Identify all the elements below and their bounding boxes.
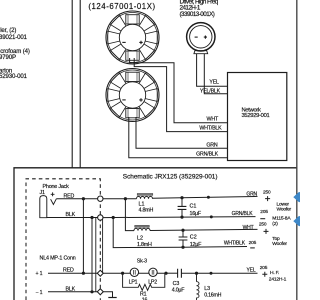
- lamp LP2: [148, 268, 157, 285]
- wire RED bus vertical: [82, 199, 84, 274]
- capacitor C3 4.0uF (series): [166, 269, 185, 294]
- wire aux vertical: [95, 218, 97, 292]
- wire GRN (woofer2 + to network): [136, 117, 228, 148]
- page border right: [296, 0, 298, 300]
- svg-text:Sk-3: Sk-3: [137, 258, 147, 264]
- svg-text:GRN: GRN: [206, 142, 218, 148]
- inductor L1 4.8mH: [137, 194, 154, 214]
- wire +1 row: [48, 272, 98, 274]
- svg-text:LP1: LP1: [129, 279, 138, 285]
- wire labels: [196, 80, 222, 158]
- wire: +1 pin to lamp branch: [103, 272, 123, 274]
- blue bookmark arrow 1: [293, 192, 300, 202]
- wire: C3 to YEL terminal: [181, 272, 257, 274]
- junction dot (branch right): [164, 272, 167, 275]
- svg-text:39021-001: 39021-001: [0, 34, 28, 41]
- svg-text:Schematic JRX125 (352929-001): Schematic JRX125 (352929-001): [123, 174, 218, 181]
- junction dot (C1 top): [180, 196, 183, 199]
- svg-text:205: 205: [260, 265, 268, 271]
- wire: BLK to WHT/BLK row: [113, 218, 247, 248]
- label H.F. 2412H-1: [269, 270, 287, 282]
- svg-text:16μF: 16μF: [190, 211, 202, 217]
- wire -1 row: [48, 291, 98, 293]
- connector pin (jack tip): [98, 196, 103, 201]
- svg-text:4.0μF: 4.0μF: [172, 287, 185, 293]
- svg-text:YEL/BLK: YEL/BLK: [200, 89, 221, 95]
- junction dot: [90, 290, 93, 293]
- connector pin (-1): [97, 289, 103, 295]
- svg-text:L2: L2: [137, 236, 143, 242]
- svg-text:(339013-001X): (339013-001X): [180, 11, 215, 18]
- polarity marks: [122, 41, 125, 43]
- junction dot: [90, 216, 93, 219]
- wire aux vertical 2: [102, 218, 104, 274]
- column divider line: [71, 0, 73, 168]
- svg-text:YEL: YEL: [246, 268, 255, 274]
- svg-text:L1: L1: [139, 202, 145, 208]
- wire YEL/BLK (driver - to network): [204, 54, 227, 94]
- resistor R1 16 (parallel branch): [123, 273, 165, 300]
- wire GRN/BLK (woofer2 - to network): [129, 117, 228, 158]
- wire through lamps: [123, 272, 166, 274]
- svg-text:C3: C3: [173, 281, 180, 287]
- svg-text:GRN: GRN: [246, 192, 257, 198]
- junction dot (C1 bottom): [180, 216, 183, 219]
- svg-text:H. F.: H. F.: [270, 270, 279, 276]
- dashed input panel box: [26, 179, 100, 300]
- wire: pin to L1 (GRN hot row): [103, 198, 137, 200]
- wire WHT (woofer1 + to network): [130, 58, 228, 123]
- connector pin (jack sleeve): [98, 215, 103, 220]
- svg-text:Phone Jack: Phone Jack: [43, 184, 70, 190]
- svg-text:4.8mH: 4.8mH: [139, 208, 154, 214]
- blue bookmark arrow 2: [293, 216, 300, 226]
- terminal YEL 205 +: [246, 265, 267, 277]
- svg-text:− 1: − 1: [36, 290, 43, 296]
- svg-text:Top: Top: [272, 236, 280, 242]
- svg-text:WHT: WHT: [207, 116, 219, 122]
- svg-text:352929-001: 352929-001: [242, 113, 270, 119]
- svg-text:+ 1: + 1: [36, 271, 43, 277]
- inductor L2 1.8mH: [134, 225, 152, 248]
- ground: [108, 297, 116, 299]
- svg-text:2412H-1: 2412H-1: [269, 276, 287, 282]
- junction dot (C2 top): [181, 229, 184, 232]
- woofer SPK1 (top woofer, rear view): [106, 11, 159, 64]
- svg-text:Woofer: Woofer: [272, 241, 287, 247]
- junction dot (branch left): [121, 272, 124, 275]
- svg-text:C1: C1: [190, 203, 197, 209]
- label Lower Woofer: [277, 202, 292, 213]
- capacitor C2 12uF: [179, 230, 203, 248]
- svg-text:WHT/BLK: WHT/BLK: [199, 125, 222, 131]
- junction dot: [210, 272, 213, 275]
- svg-text:9790P: 9790P: [0, 54, 16, 61]
- lamp LP1: [129, 268, 139, 285]
- junction dot: [210, 215, 213, 218]
- driver caption: Driver, High Freq 2412H-1 (339013-001X): [180, 0, 219, 18]
- svg-text:R1: R1: [140, 291, 147, 297]
- terminal GRN 250 +: [246, 189, 271, 201]
- woofer SPK2 (lower woofer, rear view): [106, 69, 159, 122]
- wire YEL (driver + to network): [197, 54, 228, 86]
- svg-text:WHT: WHT: [243, 225, 254, 231]
- junction dot (L3 tap): [195, 272, 198, 275]
- terminal tab bottom: [126, 51, 139, 60]
- wire: -1 pin to ground: [103, 292, 113, 297]
- svg-text:(124-67001-01X): (124-67001-01X): [88, 2, 155, 11]
- junction dot (WHT/BLK tap): [112, 216, 115, 219]
- svg-text:J1: J1: [40, 190, 45, 196]
- svg-text:0.16mH: 0.16mH: [204, 292, 221, 298]
- HF driver U1 (2412H-1, rear view): [187, 23, 215, 54]
- svg-text:YEL: YEL: [209, 80, 219, 86]
- svg-text:L3: L3: [204, 286, 210, 292]
- junction dot: [82, 272, 85, 275]
- junction dot: [82, 197, 85, 200]
- capacitor C1 16uF: [178, 198, 202, 218]
- svg-text:C2: C2: [190, 234, 197, 240]
- svg-text:LP2: LP2: [148, 279, 157, 285]
- wire: L1 to GRN terminal: [153, 196, 258, 198]
- terminal tab top: [126, 15, 139, 24]
- parts list text (left column, cut off): [0, 27, 30, 80]
- inductor L3 0.16mH (shunt): [197, 273, 222, 300]
- wire BLK bus vertical: [91, 218, 93, 292]
- schematic outer box: [14, 168, 296, 300]
- svg-text:52930-001: 52930-001: [0, 73, 28, 80]
- junction dot: [207, 196, 210, 199]
- junction dot (C2 bottom): [181, 246, 184, 249]
- wire BLK row (jack to connector pin): [47, 217, 98, 219]
- wire RED row (jack to connector pin): [56, 198, 97, 200]
- connector pin (+1): [97, 270, 103, 276]
- wire: L2 to WHT terminal: [150, 229, 258, 230]
- terminal WHT 250 +: [243, 222, 269, 234]
- assembly box left edge: [79, 0, 81, 168]
- svg-text:GRN/BLK: GRN/BLK: [232, 211, 254, 217]
- svg-text:205: 205: [260, 209, 268, 215]
- svg-text:250: 250: [263, 189, 271, 195]
- svg-text:(2): (2): [272, 221, 278, 227]
- network box 352929-001: [228, 73, 287, 161]
- svg-text:250: 250: [259, 222, 267, 228]
- terminal GRN/BLK 205 -: [232, 209, 269, 219]
- svg-text:205: 205: [249, 240, 257, 246]
- svg-text:Woofer: Woofer: [277, 206, 292, 212]
- label Top Woofer: [272, 236, 287, 247]
- svg-text:NL4 MP-1 Conn: NL4 MP-1 Conn: [40, 255, 76, 261]
- wire: pin to GRN/BLK terminal (return row): [103, 217, 256, 218]
- svg-text:M115-8A: M115-8A: [272, 216, 291, 222]
- wire: L2 feed (from RED row down): [125, 199, 134, 231]
- label M115-8A (2): [272, 216, 291, 227]
- svg-text:GRN/BLK: GRN/BLK: [196, 151, 219, 157]
- terminal WHT/BLK 205 -: [224, 240, 257, 248]
- junction dot (L2 feed tap): [124, 197, 127, 200]
- svg-text:WHT/BLK: WHT/BLK: [224, 241, 246, 247]
- wire WHT/BLK (woofer1 - to network): [134, 58, 227, 132]
